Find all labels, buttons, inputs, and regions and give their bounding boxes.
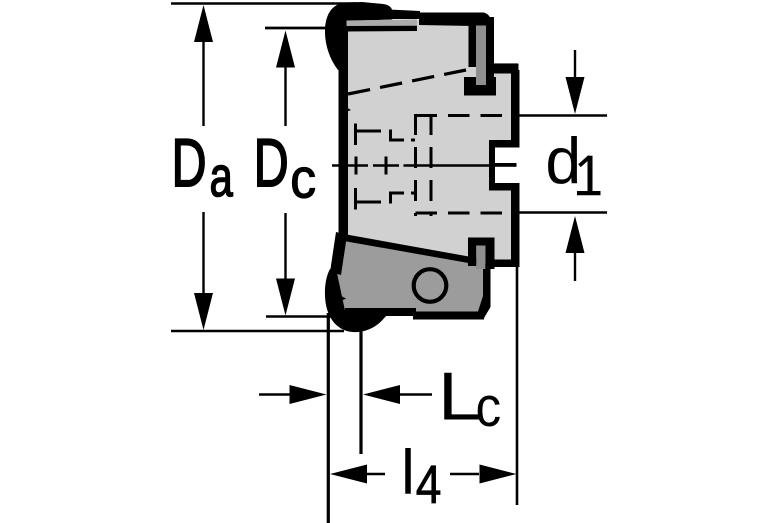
svg-text:c: c xyxy=(476,376,502,439)
d1 top extension line xyxy=(518,114,607,116)
body main light gray fill xyxy=(340,20,517,264)
d1 arrow line bottom xyxy=(574,250,576,281)
svg-text:a: a xyxy=(210,145,233,209)
centerline cross tick 1 xyxy=(355,157,358,175)
wire Dc top extension xyxy=(265,27,330,30)
top-right hook gray sliver xyxy=(476,26,486,86)
dimension D_a line bottom xyxy=(202,212,204,296)
svg-text:d: d xyxy=(545,125,581,197)
svg-text:D: D xyxy=(254,126,289,201)
top face dark underline xyxy=(347,26,418,32)
top-right hook bottom cap xyxy=(464,77,496,96)
d1 bottom extension line xyxy=(518,211,607,213)
l4 extension right xyxy=(516,266,519,505)
cartridge diagonal top band xyxy=(341,234,477,265)
svg-text:D: D xyxy=(172,126,207,201)
L_c arrow left line xyxy=(259,393,291,395)
right outer edge lower xyxy=(511,186,520,266)
cartridge bottom edge left band xyxy=(345,308,416,316)
bottom step right xyxy=(487,260,520,268)
top-right hook divider xyxy=(469,26,477,67)
top-right hook right wall xyxy=(486,17,494,93)
l4 arrow left line xyxy=(366,473,385,475)
L_c extension line 1 xyxy=(327,313,330,523)
step bar top right xyxy=(493,64,519,74)
hidden screw bracket top tick xyxy=(354,124,357,146)
dimension D_a arrow up xyxy=(194,5,213,42)
right outer edge upper xyxy=(511,70,520,147)
svg-text:l: l xyxy=(401,438,415,508)
top band black upper part xyxy=(389,10,420,20)
hidden screw bracket bottom horizontal xyxy=(357,201,381,204)
screw hole circle xyxy=(414,269,447,302)
bottom-right tab left wall xyxy=(468,238,476,267)
hidden bore dashed bottom xyxy=(416,212,517,215)
top band black lower part with chamfer xyxy=(419,13,492,29)
L_c arrow right line xyxy=(399,393,432,395)
d1 arrow up xyxy=(566,216,585,253)
bottom-right tab gray sliver xyxy=(476,246,485,270)
centerline xyxy=(332,164,494,167)
cartridge slanted left edge band xyxy=(330,232,347,275)
label d_1 subscript xyxy=(577,156,601,195)
cartridge bottom edge right band xyxy=(413,312,484,320)
hidden screw bracket top corner xyxy=(389,130,415,141)
hidden screw bracket bottom tick xyxy=(354,188,357,210)
left edge tick at diagonal xyxy=(341,104,351,114)
dashed diagonal cutting plane xyxy=(348,70,466,94)
wire Dc bottom extension xyxy=(266,315,347,317)
l4 arrow right line xyxy=(450,473,479,475)
top gray sliver xyxy=(347,19,418,26)
wire Da top extension xyxy=(171,2,356,4)
dimension D_c line bottom xyxy=(284,213,286,282)
hidden bore dashed top xyxy=(416,114,517,117)
d1 arrow line top xyxy=(574,50,576,80)
svg-text:4: 4 xyxy=(416,455,442,515)
wire Da bottom extension xyxy=(171,330,344,332)
insert blob top xyxy=(325,2,392,70)
centerline stub through notch xyxy=(494,163,517,167)
dimension D_a line top xyxy=(202,38,204,126)
L_c arrow right head xyxy=(363,385,400,404)
cartridge right edge + chamfer xyxy=(477,264,491,318)
bottom-right tab right wall xyxy=(485,238,494,270)
svg-text:c: c xyxy=(290,148,316,210)
insert blob bottom disc xyxy=(325,269,389,332)
left edge of body xyxy=(339,16,349,237)
L_c arrow left head xyxy=(290,385,327,404)
dimension D_c arrow up xyxy=(276,31,295,68)
bottom-right tab top bar xyxy=(468,238,495,246)
hidden bore dashed vertical 1 xyxy=(414,114,417,216)
notch inner wall xyxy=(489,140,495,190)
L_c extension line 2 xyxy=(359,330,362,454)
d1 arrow down xyxy=(566,77,585,114)
hidden screw bracket top horizontal xyxy=(357,130,381,133)
dimension D_a arrow down xyxy=(194,293,213,330)
l4 arrow left head xyxy=(330,465,367,484)
hidden screw bracket bottom corner xyxy=(389,193,415,204)
l4 arrow right head xyxy=(480,465,517,484)
centerline cross tick 2 xyxy=(385,157,388,175)
notch top wall xyxy=(489,140,520,148)
notch bottom wall xyxy=(489,183,520,191)
hidden bore dashed vertical 2 xyxy=(430,114,433,216)
dimension D_c arrow down xyxy=(276,279,295,316)
cartridge dark gray fill xyxy=(337,236,488,316)
insert tip tick on slant edge xyxy=(339,295,346,302)
dimension D_c line top xyxy=(284,64,286,126)
